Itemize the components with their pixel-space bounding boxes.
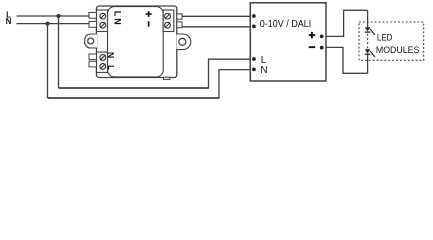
LED driver U2 box	[250, 3, 326, 81]
U1 polarity label - rotated	[148, 21, 150, 26]
screw X3-1	[165, 13, 171, 19]
U1 left ear hole	[88, 38, 94, 44]
wire L down branch	[58, 16, 60, 88]
svg-text:L: L	[106, 65, 116, 70]
U1 tab N input	[89, 21, 97, 27]
wire L input	[17, 15, 90, 17]
wire N bottom run	[48, 97, 220, 99]
U1 left mounting ear	[85, 34, 97, 48]
U2 terminal dot L	[252, 57, 256, 61]
U2 output label +	[309, 32, 315, 38]
U1 terminal block X1 mains	[97, 10, 108, 32]
LED D2	[365, 49, 376, 57]
svg-text:N: N	[6, 17, 12, 26]
wire N riser to driver	[219, 70, 252, 99]
screw X1-1	[100, 13, 106, 19]
svg-text:L: L	[113, 11, 123, 17]
dimmer module U1 body	[97, 6, 177, 78]
svg-text:N: N	[260, 65, 267, 76]
junction dot N	[46, 22, 50, 26]
screw X1-2	[100, 22, 106, 28]
U2 terminal dot control 1	[252, 14, 256, 18]
U2 output label -	[309, 46, 315, 48]
U1 tab L input	[89, 13, 97, 19]
screw X2-2	[100, 64, 106, 70]
wire control 2 module to driver	[182, 26, 252, 28]
svg-text:0-10V / DALI: 0-10V / DALI	[260, 19, 312, 30]
U1 tab lower-left 1	[89, 54, 97, 60]
wire L riser to driver	[209, 59, 253, 88]
wire N input	[17, 23, 90, 25]
wire + output	[326, 10, 368, 36]
U2 terminal dot -	[320, 46, 324, 50]
U2 terminal dot control 2	[252, 25, 256, 29]
wire N down branch	[47, 24, 49, 98]
wire LED string lower	[367, 55, 369, 74]
screw X3-2	[165, 22, 171, 28]
wire LED string upper	[367, 10, 369, 27]
U1 tab control 1	[177, 14, 182, 19]
U2 terminal dot N	[252, 68, 256, 72]
svg-text:LED: LED	[377, 32, 393, 42]
LED D1	[365, 27, 376, 35]
U1 inner unit outline	[108, 7, 164, 77]
U1 polarity label +	[146, 11, 152, 17]
U1 right ear hole	[179, 38, 186, 45]
wire LED string dashed continuation	[367, 34, 369, 49]
U2 terminal dot +	[320, 35, 324, 39]
wire L bottom run	[59, 87, 209, 89]
LED modules enclosure dashed	[359, 22, 424, 60]
svg-text:MODULES: MODULES	[376, 45, 420, 55]
svg-text:N: N	[113, 18, 123, 25]
wire control 1 module to driver	[182, 15, 252, 17]
U1 tab control 2	[177, 22, 182, 28]
U1 bottom tab	[164, 77, 170, 79]
U1 terminal block X3 control right	[163, 10, 174, 32]
U1 tab lower-left 2	[89, 61, 97, 67]
junction dot L	[57, 14, 61, 18]
wire - output	[326, 47, 368, 73]
screw X2-1	[100, 55, 106, 61]
U1 right mounting ear	[177, 34, 191, 50]
svg-text:N: N	[106, 52, 116, 58]
U1 terminal block X2 output bottom	[97, 52, 108, 72]
